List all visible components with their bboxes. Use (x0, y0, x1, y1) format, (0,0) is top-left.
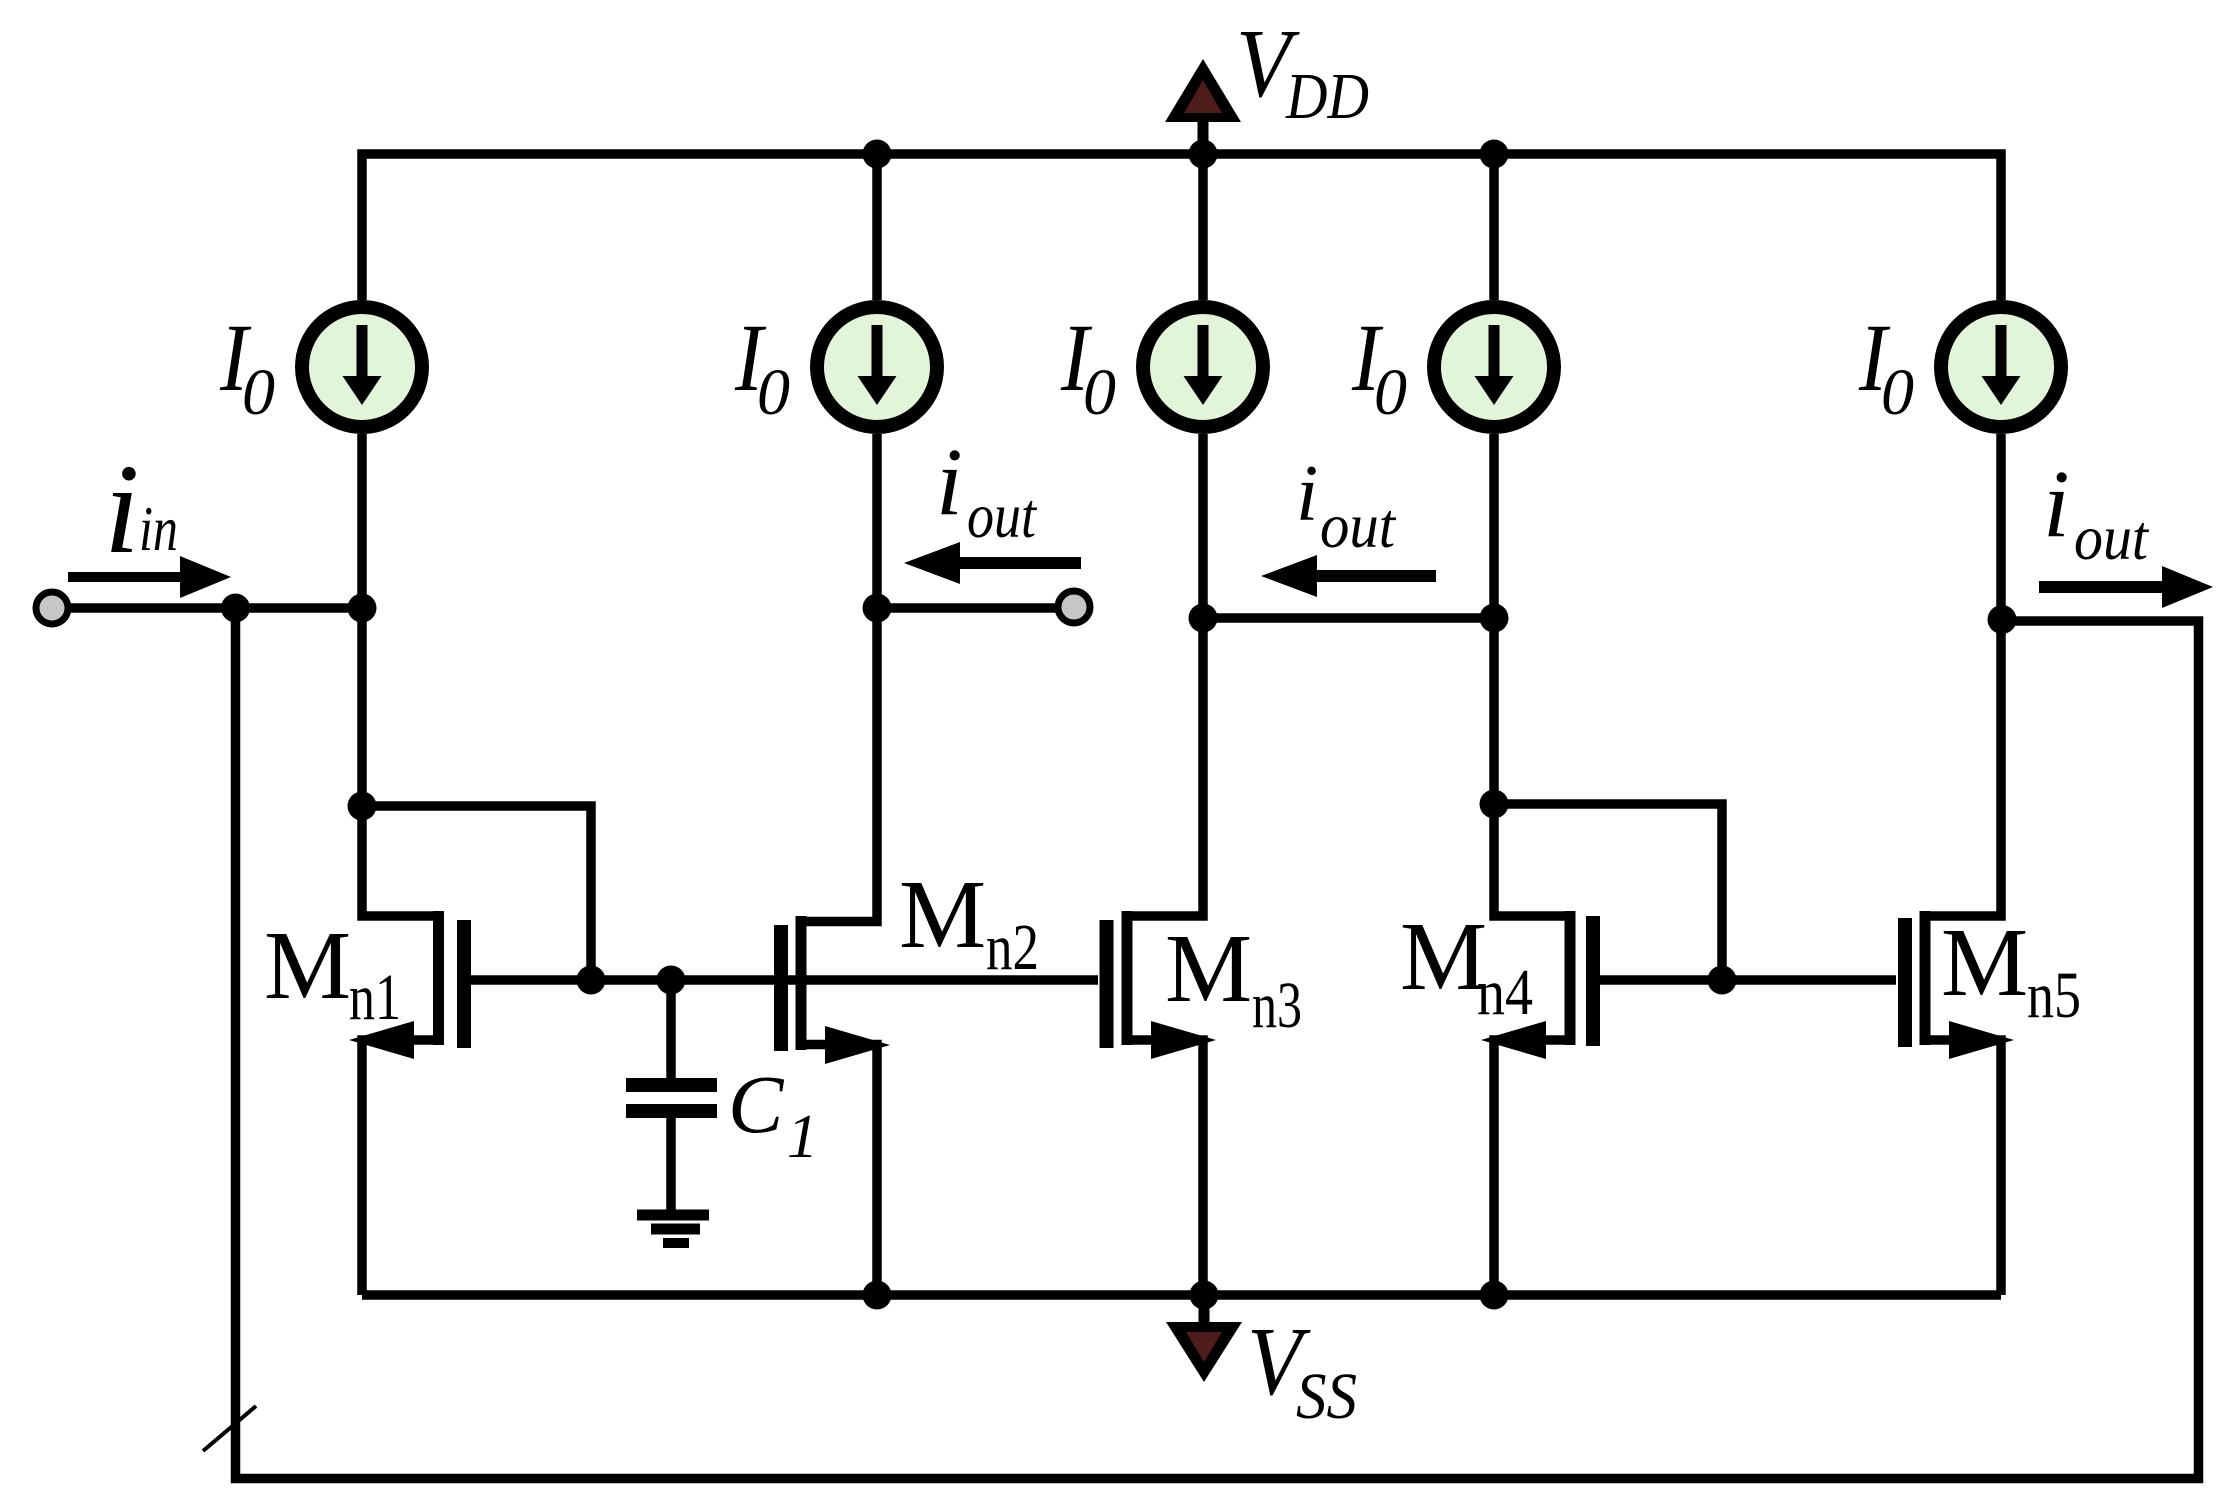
wire CS2 output to Mn2 drain (806, 434, 877, 922)
svg-text:i: i (936, 428, 963, 535)
arrow iout3 (1261, 555, 1436, 597)
wire Mn1 diode loop drain to gate (362, 806, 591, 980)
svg-text:out: out (2074, 502, 2150, 573)
terminal input (36, 592, 68, 624)
label Mn2 (899, 861, 1039, 984)
svg-text:M: M (1165, 915, 1252, 1023)
svg-text:0: 0 (1374, 356, 1407, 429)
node output junction (1988, 605, 2017, 634)
svg-text:M: M (264, 912, 351, 1020)
wire CS4 riser (1489, 154, 1499, 300)
current source I0 #2 (817, 307, 937, 427)
power VSS symbol (1166, 1295, 1242, 1382)
wire CS4 output to Mn4 drain (1494, 434, 1565, 916)
svg-text:n5: n5 (2027, 959, 2081, 1032)
svg-text:in: in (139, 493, 178, 564)
wire bottom VSS rail (362, 1290, 2001, 1300)
label I0 #3 (1060, 304, 1116, 429)
transistor Mn5 (1905, 911, 2014, 1059)
label I0 #2 (734, 304, 790, 429)
svg-text:n4: n4 (1477, 956, 1533, 1029)
node iout2 junction (863, 594, 892, 623)
ground symbol (637, 1215, 709, 1243)
node input junctions (221, 594, 377, 623)
svg-text:0: 0 (757, 356, 790, 429)
label VSS (1247, 1308, 1357, 1433)
svg-text:M: M (1941, 909, 2028, 1017)
label C1 (728, 1058, 818, 1171)
svg-text:n3: n3 (1252, 969, 1302, 1042)
wire Mn4 source to bottom rail (1494, 1040, 1565, 1295)
wire CS2 riser (872, 154, 882, 300)
svg-text:n1: n1 (349, 961, 401, 1034)
current source I0 #1 (302, 307, 422, 427)
wire CS3 riser (1198, 154, 1208, 300)
transistor Mn4 (1481, 911, 1593, 1059)
transistor Mn1 (349, 911, 464, 1059)
svg-text:1: 1 (787, 1103, 818, 1171)
wire break slash mark (203, 1406, 256, 1451)
svg-text:out: out (967, 480, 1038, 551)
label Mn4 (1400, 903, 1533, 1029)
svg-text:n2: n2 (986, 911, 1039, 984)
svg-text:i: i (1296, 450, 1318, 538)
label VDD (1236, 10, 1369, 133)
label iout5 (2043, 450, 2150, 573)
node Mn4 drain junction (1480, 790, 1509, 819)
capacitor C1 bottom wire (666, 1118, 676, 1212)
current source I0 #5 (1941, 307, 2061, 427)
svg-text:M: M (899, 861, 986, 969)
transistor Mn3 (1107, 911, 1217, 1059)
wire top VDD rail with end risers (362, 154, 2001, 300)
wire Mn4 diode loop drain to gate (1494, 804, 1722, 980)
wire gate bus Mn4 Mn5 (1600, 975, 1896, 985)
svg-text:C: C (728, 1058, 785, 1150)
label Mn1 (264, 912, 401, 1034)
wire Mn1 source to bottom rail (362, 1040, 434, 1295)
node iout3 junctions (1189, 604, 1509, 633)
node Mn1 drain junction (348, 792, 377, 821)
power VDD symbol (1165, 59, 1241, 154)
label iin (104, 438, 178, 580)
svg-text:M: M (1400, 903, 1487, 1011)
wire Mn3 source to bottom rail (1132, 1040, 1203, 1295)
current source I0 #3 (1143, 307, 1263, 427)
svg-text:0: 0 (242, 356, 275, 429)
wire CS1 output to Mn1 drain (362, 434, 434, 916)
wire node3 to node4 (1203, 613, 1494, 623)
svg-text:out: out (1320, 490, 1397, 561)
transistor Mn2 (781, 916, 890, 1064)
current source I0 #4 (1434, 307, 1554, 427)
arrow iin (68, 556, 231, 598)
label I0 #1 (219, 304, 275, 429)
wire input lead (52, 603, 362, 613)
wire Mn5 source to bottom rail (1930, 1040, 2001, 1295)
terminal iout2 (1058, 591, 1090, 623)
capacitor C1 plates (626, 1085, 717, 1111)
label iout2 (936, 428, 1038, 551)
node gate bus junctions (577, 966, 1737, 995)
svg-text:DD: DD (1285, 60, 1369, 133)
label iout3 (1296, 450, 1397, 561)
wire feedback loop output to input (236, 608, 2199, 1479)
label I0 #4 (1351, 304, 1407, 429)
wire Mn2 source to bottom rail (806, 1045, 877, 1296)
svg-text:SS: SS (1296, 1360, 1357, 1433)
svg-text:0: 0 (1881, 356, 1914, 429)
label Mn5 (1941, 909, 2081, 1032)
svg-text:i: i (104, 438, 140, 580)
label Mn3 (1165, 915, 1302, 1042)
node bottom rail junctions (863, 1281, 1509, 1310)
wire iout2 lead to terminal (877, 603, 1058, 613)
capacitor C1 top wire (666, 980, 676, 1078)
arrow iout2 (904, 542, 1081, 584)
svg-text:0: 0 (1083, 356, 1116, 429)
junction dots top rail (863, 140, 1509, 169)
arrow iout5 (2039, 566, 2213, 608)
wire CS3 output to Mn3 drain (1132, 434, 1203, 916)
label I0 #5 (1858, 304, 1914, 429)
wire gate bus Mn1 Mn2 Mn3 (468, 975, 1098, 985)
wire CS5 output to Mn5 drain (1930, 434, 2001, 916)
svg-text:i: i (2043, 450, 2070, 557)
